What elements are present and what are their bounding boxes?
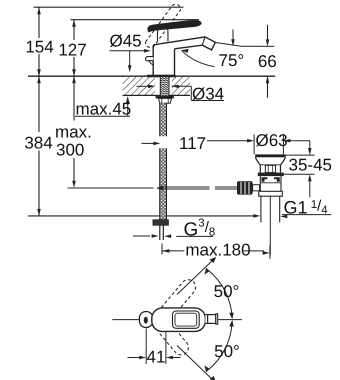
svg-text:Ø34: Ø34 bbox=[192, 85, 224, 104]
svg-text:41: 41 bbox=[147, 348, 166, 367]
svg-text:127: 127 bbox=[58, 41, 86, 60]
svg-text:max.: max. bbox=[55, 123, 92, 142]
svg-text:max.180: max.180 bbox=[185, 241, 250, 260]
svg-text:Ø45: Ø45 bbox=[110, 32, 142, 51]
svg-text:66: 66 bbox=[258, 52, 277, 71]
svg-text:75°: 75° bbox=[219, 51, 245, 70]
svg-text:50°: 50° bbox=[214, 342, 240, 361]
svg-text:Ø63: Ø63 bbox=[256, 131, 288, 150]
svg-text:50°: 50° bbox=[214, 282, 240, 301]
svg-text:300: 300 bbox=[56, 141, 84, 160]
svg-text:35-45: 35-45 bbox=[289, 156, 332, 175]
svg-text:154: 154 bbox=[25, 38, 53, 57]
svg-text:384: 384 bbox=[24, 134, 52, 153]
svg-text:117: 117 bbox=[179, 134, 206, 153]
svg-text:max.45: max.45 bbox=[76, 100, 132, 119]
